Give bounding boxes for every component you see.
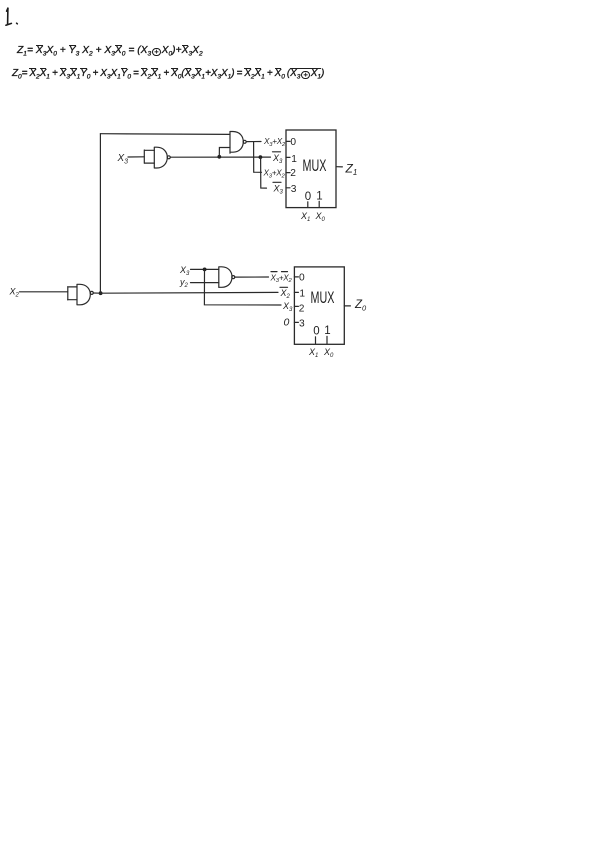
svg-text:MUX: MUX [311,289,335,307]
wire node B down to MUX U3 input 3 [261,157,267,188]
wire X2-bar vertical from node C up to top circuit [99,134,101,294]
equation for Z1 [17,45,203,56]
svg-text:0: 0 [313,325,319,337]
svg-text:X3: X3 [179,265,190,277]
MUX U3 select tick 0 [307,202,309,208]
wire MUX U6 output [344,305,350,307]
MUX U3 select tick 1 [318,201,320,207]
MUX U6 select tick 0 [315,337,317,344]
svg-text:2: 2 [299,304,305,315]
equation for Z0 [12,68,324,79]
svg-text:1: 1 [324,325,330,337]
label X3-bar at MUX U3 input 3 [273,182,284,195]
wire branch from U2 output down to MUX U3 input 2 [254,142,262,173]
svg-text:Z1: Z1 [345,162,358,178]
svg-text:0: 0 [305,191,311,203]
MUX U3 input tick 1 [286,156,290,158]
wire Y2 to U5 lower input [191,282,219,284]
MUX U6 input tick 0 [294,276,298,278]
MUX U3 input tick 2 [286,172,290,174]
MUX U6 input tick 1 [294,291,298,293]
MUX U6 body (Z0) [294,267,344,344]
MUX U3 input tick 0 [286,140,290,142]
svg-text:X2: X2 [280,288,291,300]
wire U2 output to MUX U3 input 0 [246,141,261,143]
problem number label 1. [6,8,17,25]
wire U5 output to MUX U6 input 0 [235,276,269,278]
svg-text:1: 1 [291,154,297,165]
NAND gate U4 (X2 inverter, inputs tied) [68,284,94,305]
svg-text:3: 3 [291,184,297,195]
svg-text:X2: X2 [9,287,20,299]
svg-text:0: 0 [290,137,296,148]
svg-text:X3: X3 [272,153,283,165]
svg-text:3: 3 [299,318,305,329]
wire X3 input to U1 [128,156,144,158]
node A junction on X3-bar wire [217,155,221,159]
NAND gate U5 [219,267,235,288]
svg-text:X0: X0 [315,211,326,223]
wire node D down to MUX U6 input 2 [204,269,281,305]
wire X2-bar from left vertical to U2 upper input [100,133,230,136]
svg-text:0: 0 [299,273,305,284]
label X3bar+X2bar at MUX U6 input 0 [270,272,293,284]
svg-text:X1: X1 [308,347,318,359]
svg-text:y2: y2 [179,277,189,289]
wire X3-bar from U1 to MUX U3 input 1 [170,156,270,158]
svg-text:2: 2 [290,168,296,179]
wire U4 output to node C [93,292,100,294]
MUX U6 input tick 2 [294,305,298,307]
MUX U6 input tick 3 [294,321,298,323]
wire X2 input to U4 [20,291,68,293]
node B junction on X3-bar wire [259,155,263,159]
wire node A up to U2 lower input [219,148,230,157]
svg-text:Z0: Z0 [354,299,367,312]
svg-text:X3+X2: X3+X2 [263,137,286,148]
MUX U6 title [311,289,335,307]
svg-text:X3+X2: X3+X2 [270,273,293,284]
svg-text:X3+X2: X3+X2 [263,169,286,180]
MUX U3 title [303,157,327,175]
MUX U3 body (Z1) [286,130,336,208]
svg-text:X3: X3 [282,301,293,313]
svg-text:1: 1 [316,190,322,202]
svg-text:X1: X1 [300,211,310,223]
svg-text:1: 1 [299,288,305,299]
MUX U6 select tick 1 [326,336,328,344]
label X2-bar at MUX U6 input 1 [280,287,291,300]
wire X2-bar from node C to MUX U6 input 1 [101,291,278,294]
NAND gate U1 (X3 inverter, inputs tied) [144,147,170,168]
wire X3 to U5 upper input [191,268,219,270]
NAND gate U2 [230,132,246,154]
svg-text:0: 0 [284,317,290,329]
wire MUX U3 output [337,166,343,168]
MUX U3 input tick 3 [286,187,290,189]
label X3-bar at MUX U3 input 1 [272,152,283,165]
node D junction on bottom X3 wire [203,268,207,272]
svg-text:X3: X3 [273,184,284,196]
svg-text:MUX: MUX [303,157,327,175]
node C junction at U4 output [99,291,103,295]
svg-text:X0: X0 [323,347,334,359]
svg-text:X3: X3 [117,153,129,166]
